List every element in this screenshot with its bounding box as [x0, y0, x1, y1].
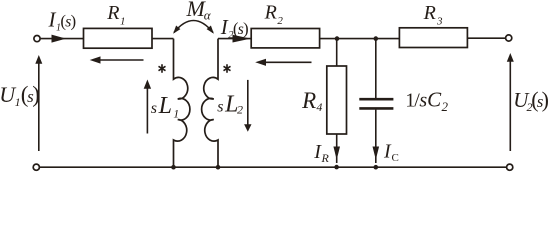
svg-text:α: α [204, 7, 212, 22]
svg-text:sL2: sL2 [217, 91, 243, 117]
svg-text:1/sC2: 1/sC2 [405, 88, 448, 115]
svg-text:U1(s): U1(s) [0, 82, 40, 109]
svg-text:R4: R4 [301, 88, 322, 114]
svg-text:IR: IR [313, 141, 329, 165]
svg-text:sL1: sL1 [151, 93, 179, 121]
svg-text:I2(s): I2(s) [220, 15, 249, 41]
svg-text:U2(s): U2(s) [513, 87, 549, 114]
svg-text:R3: R3 [423, 2, 443, 27]
svg-text:R1: R1 [106, 2, 125, 27]
svg-text:I1(s): I1(s) [48, 8, 77, 34]
svg-text:R2: R2 [264, 2, 284, 27]
svg-text:IC: IC [383, 141, 399, 164]
